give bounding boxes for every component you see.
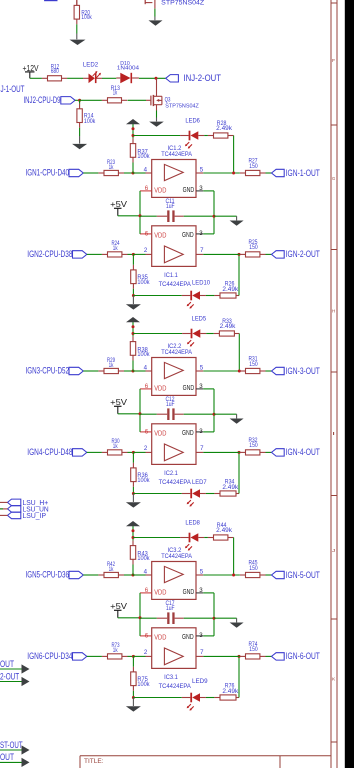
- svg-text:IGN-3-OUT: IGN-3-OUT: [286, 366, 321, 376]
- svg-text:VDD: VDD: [154, 428, 166, 437]
- svg-text:1uF: 1uF: [166, 605, 175, 612]
- svg-text:100k: 100k: [137, 351, 150, 358]
- svg-text:100k: 100k: [137, 681, 150, 688]
- svg-text:GND: GND: [182, 230, 194, 239]
- svg-text:F: F: [332, 58, 335, 63]
- svg-text:1uF: 1uF: [166, 401, 175, 408]
- svg-text:7: 7: [200, 445, 204, 452]
- svg-text:4: 4: [144, 166, 148, 173]
- svg-text:680: 680: [51, 68, 59, 75]
- svg-text:IC3.1: IC3.1: [164, 675, 178, 681]
- svg-text:4: 4: [144, 364, 148, 371]
- svg-text:2.49k: 2.49k: [222, 688, 239, 695]
- svg-text:LED9: LED9: [192, 678, 208, 685]
- svg-text:+5V: +5V: [110, 602, 128, 611]
- svg-text:150: 150: [249, 442, 258, 449]
- svg-text:IC2.1: IC2.1: [164, 471, 178, 477]
- svg-text:TC4424EPA: TC4424EPA: [161, 350, 192, 356]
- svg-text:GND: GND: [182, 632, 194, 641]
- svg-text:150: 150: [249, 565, 258, 572]
- svg-text:J: J: [332, 548, 335, 553]
- svg-text:6: 6: [145, 185, 149, 192]
- svg-text:I: I: [332, 431, 335, 436]
- svg-text:1N4004: 1N4004: [117, 65, 139, 71]
- svg-text:5: 5: [200, 568, 204, 575]
- svg-text:6: 6: [145, 587, 149, 594]
- svg-text:GND: GND: [183, 185, 195, 194]
- svg-text:IGN-6-OUT: IGN-6-OUT: [286, 651, 321, 661]
- svg-text:VDD: VDD: [154, 383, 166, 392]
- svg-text:100k: 100k: [137, 153, 150, 160]
- svg-text:TC4424EPA: TC4424EPA: [159, 282, 191, 288]
- svg-text:6: 6: [145, 383, 149, 390]
- svg-text:TC4424EPA: TC4424EPA: [159, 480, 191, 486]
- svg-text:J-1-OUT: J-1-OUT: [1, 84, 25, 94]
- svg-text:LED5: LED5: [192, 316, 207, 323]
- svg-text:TC4424EPA: TC4424EPA: [161, 554, 192, 560]
- svg-text:IGN2-CPU-D38: IGN2-CPU-D38: [27, 249, 72, 259]
- svg-text:IGN-5-OUT: IGN-5-OUT: [286, 570, 321, 580]
- svg-text:1uF: 1uF: [166, 203, 175, 210]
- svg-text:1k: 1k: [113, 443, 118, 450]
- svg-text:TC4424EPA: TC4424EPA: [161, 152, 192, 158]
- svg-text:150: 150: [249, 646, 258, 653]
- svg-text:ST-OUT: ST-OUT: [0, 740, 23, 750]
- svg-text:2.49k: 2.49k: [216, 125, 233, 132]
- svg-text:IGN-4-OUT: IGN-4-OUT: [286, 447, 321, 457]
- svg-text:IGN-2-OUT: IGN-2-OUT: [286, 249, 321, 259]
- svg-text:VDD: VDD: [154, 632, 166, 641]
- svg-text:IGN-1-OUT: IGN-1-OUT: [286, 168, 321, 178]
- svg-text:STP75NS04Z: STP75NS04Z: [165, 104, 199, 110]
- svg-text:TITLE:: TITLE:: [84, 759, 104, 765]
- svg-text:7: 7: [200, 649, 204, 656]
- svg-text:6: 6: [145, 632, 149, 639]
- svg-text:2.49k: 2.49k: [222, 286, 239, 293]
- svg-text:LED7: LED7: [192, 479, 207, 486]
- svg-text:IGN3-CPU-D52: IGN3-CPU-D52: [26, 366, 70, 376]
- svg-text:2.49k: 2.49k: [222, 484, 239, 491]
- svg-text:150: 150: [249, 361, 258, 368]
- svg-text:2: 2: [144, 247, 148, 254]
- svg-text:6: 6: [145, 428, 149, 435]
- svg-text:1k: 1k: [109, 164, 114, 171]
- svg-text:100k: 100k: [137, 477, 150, 484]
- svg-text:2.49k: 2.49k: [216, 527, 233, 534]
- svg-text:TC4424EPA: TC4424EPA: [159, 684, 191, 690]
- svg-text:GND: GND: [182, 428, 194, 437]
- svg-text:GND: GND: [183, 383, 195, 392]
- svg-text:+5V: +5V: [110, 200, 128, 209]
- svg-text:IGN6-CPU-D34: IGN6-CPU-D34: [27, 651, 72, 661]
- svg-text:LED6: LED6: [185, 118, 200, 125]
- svg-text:IC1.1: IC1.1: [164, 273, 178, 279]
- svg-text:GND: GND: [183, 587, 195, 596]
- svg-text:VDD: VDD: [154, 230, 166, 239]
- svg-text:VDD: VDD: [154, 185, 166, 194]
- svg-text:LED8: LED8: [185, 520, 200, 527]
- svg-text:IGN5-CPU-D36: IGN5-CPU-D36: [26, 570, 70, 580]
- svg-text:2-OUT: 2-OUT: [0, 671, 20, 681]
- svg-text:2.49k: 2.49k: [220, 323, 237, 330]
- svg-text:4: 4: [144, 568, 148, 575]
- svg-text:OUT: OUT: [0, 752, 14, 762]
- svg-text:LED10: LED10: [192, 279, 211, 286]
- svg-text:+5V: +5V: [110, 398, 128, 407]
- svg-text:G: G: [332, 176, 336, 181]
- svg-text:5: 5: [200, 166, 204, 173]
- svg-text:7: 7: [200, 247, 204, 254]
- svg-text:LSU_IP: LSU_IP: [23, 511, 47, 520]
- svg-text:H: H: [332, 309, 335, 314]
- svg-text:1k: 1k: [113, 647, 118, 654]
- svg-text:INJ-2-OUT: INJ-2-OUT: [184, 73, 222, 83]
- svg-text:100k: 100k: [84, 118, 96, 125]
- svg-text:2: 2: [144, 649, 148, 656]
- svg-text:IGN4-CPU-D48: IGN4-CPU-D48: [27, 447, 72, 457]
- svg-text:INJ2-CPU-D9: INJ2-CPU-D9: [24, 95, 61, 105]
- svg-text:100k: 100k: [137, 279, 150, 286]
- svg-text:100k: 100k: [81, 14, 92, 21]
- svg-text:5: 5: [200, 364, 204, 371]
- svg-text:1k: 1k: [113, 245, 118, 252]
- svg-text:150: 150: [249, 244, 258, 251]
- svg-text:1k: 1k: [109, 362, 114, 369]
- svg-text:VDD: VDD: [154, 587, 166, 596]
- svg-text:100k: 100k: [137, 555, 150, 562]
- svg-text:150: 150: [249, 163, 258, 170]
- svg-text:STP75NS04Z: STP75NS04Z: [161, 0, 204, 7]
- svg-text:1k: 1k: [113, 90, 118, 97]
- svg-text:2: 2: [144, 445, 148, 452]
- svg-text:6: 6: [145, 230, 149, 237]
- svg-text:OUT: OUT: [0, 659, 14, 669]
- svg-text:IGN1-CPU-D40: IGN1-CPU-D40: [26, 168, 70, 178]
- svg-text:1k: 1k: [109, 566, 114, 573]
- svg-text:LED2: LED2: [83, 62, 99, 69]
